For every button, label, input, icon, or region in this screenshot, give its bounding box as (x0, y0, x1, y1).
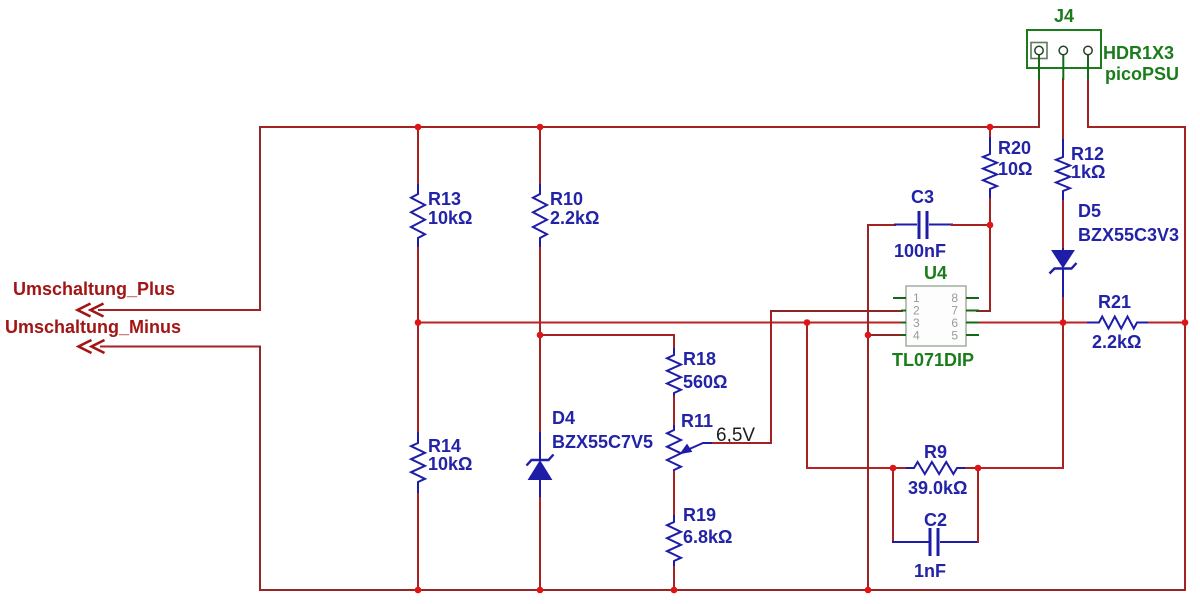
svg-text:39.0kΩ: 39.0kΩ (908, 478, 967, 498)
diode D4 BZX55C7V5 zener (527, 432, 554, 498)
wire: C2 left branch vertical (892, 467, 894, 543)
resistor R9 (906, 462, 966, 474)
svg-text:R21: R21 (1098, 292, 1131, 312)
wire: R18 top lead (673, 334, 675, 349)
wire: riser to R9 left (806, 467, 894, 469)
wire: C2 right branch vertical (977, 467, 979, 543)
wire: R18 to R11 (673, 396, 675, 426)
svg-text:picoPSU: picoPSU (1105, 64, 1179, 84)
svg-text:J4: J4 (1054, 6, 1074, 26)
svg-text:6.8kΩ: 6.8kΩ (683, 527, 732, 547)
U4 pin numbers (913, 291, 958, 343)
capacitor C2 (892, 528, 979, 556)
wire: Umschaltung_Plus lead (98, 309, 261, 311)
svg-text:10kΩ: 10kΩ (428, 454, 472, 474)
svg-text:100nF: 100nF (894, 241, 946, 261)
wire: R9 right lead wire (965, 467, 980, 469)
wire: left rail lower segment (259, 346, 261, 592)
node Umschaltung_Minus input arrow (79, 340, 105, 353)
wire: Umschaltung_Minus lead (100, 346, 261, 348)
label R12 value (1071, 144, 1105, 182)
wire: middle bus left (to U4 pin 3) (418, 322, 903, 324)
svg-text:5: 5 (951, 329, 958, 343)
svg-text:C3: C3 (911, 187, 934, 207)
connector J4 pin stubs (1039, 54, 1088, 80)
label D5 value (1078, 201, 1179, 245)
resistor R13 (411, 184, 425, 248)
svg-text:2.2kΩ: 2.2kΩ (550, 208, 599, 228)
label R19 value (683, 505, 732, 547)
svg-text:R19: R19 (683, 505, 716, 525)
node Umschaltung_Plus input arrow (78, 304, 104, 317)
wire: pin3 to right rail horizontal (1087, 126, 1186, 128)
wire: R21 to right rail (1148, 322, 1186, 324)
svg-text:D5: D5 (1078, 201, 1101, 221)
resistor R14 (411, 432, 425, 494)
wire: bottom ground bus (259, 589, 1186, 591)
wire: wiper to pin2 riser horizontal (712, 442, 772, 444)
resistor R12 (1056, 139, 1070, 201)
wire: R10 to D4 segment (539, 247, 541, 433)
wire: D4 node to R18 horizontal (539, 334, 675, 336)
label R20 value (998, 138, 1032, 179)
connector J4 pin3 wire (1087, 78, 1089, 128)
potentiometer R11 wiper arrow (681, 443, 714, 454)
svg-text:HDR1X3: HDR1X3 (1103, 43, 1174, 63)
resistor R21 (1087, 317, 1149, 329)
connector J4 pin1 wire (1038, 78, 1040, 128)
svg-text:1nF: 1nF (914, 561, 946, 581)
wire: left rail upper segment (259, 126, 261, 311)
resistor R20 (983, 137, 997, 199)
svg-text:BZX55C7V5: BZX55C7V5 (552, 432, 653, 452)
svg-text:Umschaltung_Plus: Umschaltung_Plus (13, 279, 175, 299)
wire: middle bus right (U4 pin6 to R21) (976, 322, 1088, 324)
svg-text:560Ω: 560Ω (683, 372, 727, 392)
wire: U4 pin 4 connection (867, 334, 903, 336)
resistor R18 (667, 348, 681, 397)
svg-text:R14: R14 (428, 436, 461, 456)
resistor R19 (667, 515, 681, 567)
wire: C3 left lead wire (867, 224, 896, 226)
connector J4 pin2 wire / R12 top (1062, 78, 1064, 140)
svg-text:C2: C2 (924, 510, 947, 530)
svg-text:BZX55C3V3: BZX55C3V3 (1078, 225, 1179, 245)
potentiometer R11 (667, 425, 681, 472)
wire: R13 column top (417, 126, 419, 185)
svg-text:R10: R10 (550, 189, 583, 209)
wire: pin2 riser vertical (770, 310, 772, 444)
wire: right rail vertical (1184, 126, 1186, 591)
wire: R20 top lead (989, 126, 991, 138)
svg-text:R9: R9 (924, 442, 947, 462)
svg-text:1kΩ: 1kΩ (1071, 162, 1105, 182)
svg-text:R18: R18 (683, 349, 716, 369)
label R14 value (428, 436, 472, 474)
wire: D5 to middle bus (1062, 297, 1064, 323)
label R21 value (1092, 292, 1141, 352)
svg-text:Umschaltung_Minus: Umschaltung_Minus (5, 317, 181, 337)
wire: U4 pin 7 connection (976, 310, 991, 312)
svg-text:4: 4 (913, 329, 920, 343)
diode D5 BZX55C3V3 zener (1050, 248, 1077, 298)
wire: D4 column bottom (539, 497, 541, 591)
svg-text:TL071DIP: TL071DIP (892, 350, 974, 370)
wire: top supply bus (259, 126, 1040, 128)
label C3 value (894, 187, 946, 261)
U4 pin stubs left (893, 298, 906, 335)
label R9 value (908, 442, 967, 498)
wire: R20 bottom to U4 pin 7 (989, 198, 991, 312)
wire: R10 column top (539, 126, 541, 185)
connector J4 pin circles (1035, 46, 1092, 54)
wire: U4 pin 2 connection (770, 310, 903, 312)
resistor R10 (533, 184, 547, 248)
svg-text:D4: D4 (552, 408, 575, 428)
svg-text:R12: R12 (1071, 144, 1104, 164)
connector J4 pin1 square (1031, 43, 1047, 59)
connector J4 body HDR1X3 (1027, 30, 1101, 68)
wire: R14 column bottom (417, 493, 419, 591)
wire: middle bus junction riser (to R9) (806, 322, 808, 470)
wire: R19 bottom lead (673, 566, 675, 591)
svg-text:R11: R11 (681, 411, 713, 431)
svg-text:R20: R20 (998, 138, 1031, 158)
label D4 value (552, 408, 653, 452)
wire: R13 to R14 segment (417, 247, 419, 433)
wire: C3 right lead wire (951, 224, 991, 226)
wire: R11 to R19 (673, 471, 675, 516)
svg-text:2.2kΩ: 2.2kΩ (1092, 332, 1141, 352)
svg-text:10Ω: 10Ω (998, 159, 1032, 179)
label R18 value (683, 349, 727, 392)
label R10 value (550, 189, 599, 228)
svg-text:R13: R13 (428, 189, 461, 209)
wire: R9 left lead wire (893, 467, 907, 469)
wire: R12 to D5 (1062, 200, 1064, 249)
wire: C3 left / U4 pin 4 vertical (867, 224, 869, 591)
capacitor C3 (894, 211, 953, 239)
op-amp U4 TL071DIP body (906, 286, 966, 346)
svg-text:U4: U4 (924, 263, 947, 283)
wire: D5 node down to R9 right row (1062, 322, 1064, 469)
U4 pin stubs right (966, 298, 979, 335)
svg-text:10kΩ: 10kΩ (428, 208, 472, 228)
label R13 value (428, 189, 472, 228)
label C2 value (914, 510, 947, 581)
wire: R9 right to D5 node horizontal (978, 467, 1064, 469)
